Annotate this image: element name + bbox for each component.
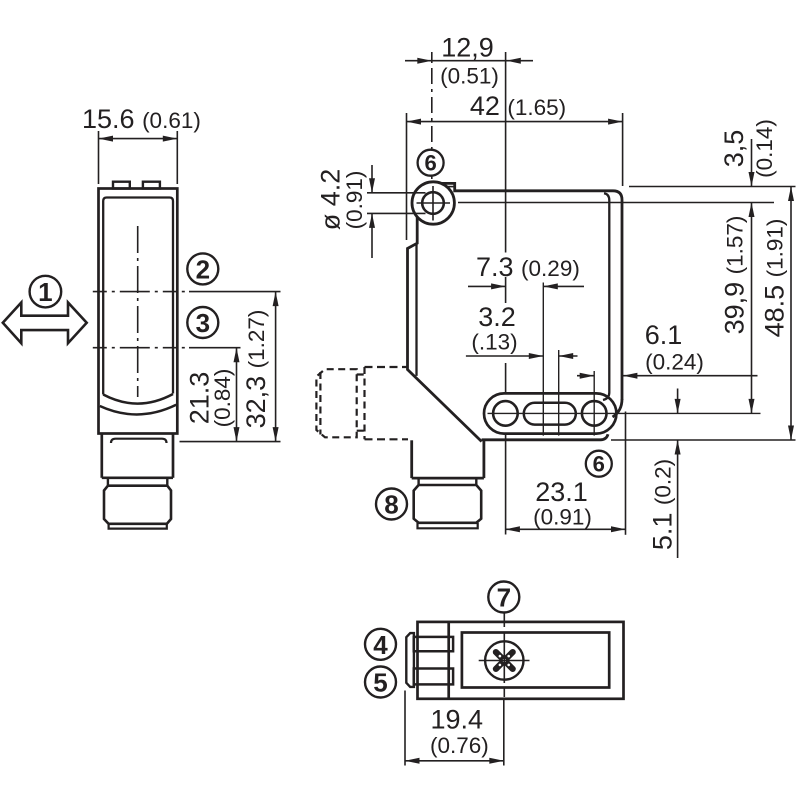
slot vertical line b [558, 350, 560, 436]
top tab 2 [143, 182, 160, 189]
dia 4.2 leader lines [367, 193, 426, 214]
dimension text 32,3 (1.27) rotated [241, 310, 271, 429]
arrowheads 23.1 [505, 526, 625, 532]
optical axis 2 (dash-dot through body) [93, 291, 189, 293]
dimension text dia 4.2 (0.91) rotated [316, 169, 368, 231]
lens window arc lower [100, 405, 176, 415]
svg-text:6: 6 [424, 151, 436, 176]
callout circle 1 [30, 276, 62, 308]
svg-text:(0.51): (0.51) [440, 64, 499, 89]
dimension 6.1 arrows [577, 375, 758, 377]
svg-text:(.13): (.13) [471, 330, 517, 355]
mounting hole boss [412, 182, 454, 224]
clamp tab 2 (top view) [414, 669, 453, 685]
svg-text:(0.91): (0.91) [342, 171, 367, 230]
dimension text 21.3 (0.84) rotated [185, 369, 236, 428]
svg-text:(0.76): (0.76) [430, 733, 489, 758]
boss seam line [444, 186, 455, 188]
top reference line [629, 186, 796, 188]
dimension 7.3 arrows [468, 285, 584, 287]
arrowheads 32,3 [273, 292, 279, 442]
dimension 3.2 arrows [466, 355, 578, 357]
front body inner left line [415, 244, 417, 376]
hidden side connector flange lines [365, 367, 409, 439]
svg-text:12,9: 12,9 [441, 33, 494, 63]
top view outer rectangle [418, 622, 624, 699]
bottom connector end cap (front view) [418, 523, 478, 529]
slot right circle [582, 401, 607, 426]
arrowheads 15.6 [99, 136, 178, 142]
top view separator line [447, 622, 450, 699]
dimension 48.5 line [790, 187, 792, 441]
svg-text:7.3 (0.29): 7.3 (0.29) [476, 252, 580, 282]
optical axis 3 (dash-dot through body) [93, 347, 189, 349]
dia 4.2 dimension vertical line [371, 165, 373, 258]
svg-text:3.2: 3.2 [478, 302, 516, 332]
slot centre oval [524, 403, 576, 425]
extension line hole centre (dash-dot) [431, 52, 433, 188]
arrowhead 3,5 [749, 172, 755, 187]
connector ring (left view) [108, 478, 167, 486]
dimension text 42 (1.65) [470, 91, 566, 121]
hidden side connector inner face line [319, 372, 321, 435]
bottom connector ring (front view) [419, 478, 477, 485]
dimension text 39,9 (1.57) rotated [720, 216, 750, 335]
callout circle 7 [488, 582, 519, 613]
arrowheads 42 [407, 119, 623, 125]
svg-text:48.5 (1.91): 48.5 (1.91) [760, 219, 790, 338]
arrowheads 5.1 [675, 399, 681, 455]
inner housing line [103, 198, 173, 395]
hidden side connector (dashed) nut [316, 369, 356, 437]
body right edge merge into foot [613, 399, 623, 417]
bottom reference line (front view) [611, 439, 796, 441]
dimension 5.1 lines [677, 389, 679, 559]
arrowheads 19.4 [405, 758, 504, 764]
top view inner rectangle [462, 633, 609, 688]
left view body outer rectangle [99, 189, 178, 434]
svg-text:2: 2 [196, 254, 210, 284]
dimension text 5.1 (0.2) rotated [648, 459, 678, 550]
connector end cap (left view) [109, 524, 167, 529]
connector nut (left view) [104, 486, 171, 524]
svg-text:5: 5 [373, 668, 387, 698]
lens window arc upper [103, 394, 173, 404]
screw circle [485, 641, 523, 679]
dimension text 7.3 (0.29) [476, 252, 580, 282]
mounting hole [422, 192, 444, 214]
top tab 1 [113, 182, 130, 189]
extension line optic axis long [505, 52, 507, 535]
dimension text 48.5 (1.91) rotated [760, 219, 790, 338]
svg-text:23.1: 23.1 [535, 477, 588, 507]
dimension 3,5 line [751, 139, 753, 187]
svg-text:8: 8 [384, 490, 398, 520]
dimension line 15.6 [99, 131, 178, 184]
dimension line 19.4 [405, 691, 504, 766]
dimension 21.3 vertical line [236, 348, 238, 442]
front body outline [442, 183, 623, 400]
arrowheads dia 4.2 [369, 178, 375, 228]
inner right line [604, 193, 609, 392]
callout circle 5 [365, 667, 396, 698]
clamp section below body [102, 434, 173, 478]
screw cross [496, 652, 513, 669]
slot left circle [493, 401, 518, 426]
clamp bracket (top view) [406, 633, 414, 687]
body bottom edge [482, 434, 608, 440]
bottom connector housing (front view) [412, 440, 484, 478]
screw centerline vertical (dash-dot) [503, 613, 505, 698]
svg-text:6.1: 6.1 [645, 320, 683, 350]
callout circle 2 [187, 253, 218, 284]
front body left edge [408, 217, 482, 442]
arrowheads 12,9 (outside) [417, 58, 521, 64]
dimension line 12,9 [405, 60, 533, 62]
callout circle 4 [365, 629, 396, 660]
dimension text 6.1 (0.24) [645, 320, 704, 375]
dimension 32,3 vertical line [275, 292, 277, 442]
optical axis 3 extension line [189, 347, 241, 349]
dimension text 3.2 (.13) [471, 302, 517, 355]
svg-text:6: 6 [593, 452, 605, 477]
optical axis 2 extension line [189, 291, 281, 293]
arrowheads 48.5 [788, 187, 794, 441]
vertical centerline [137, 226, 139, 397]
hole axis line vertical [432, 186, 434, 221]
svg-text:39,9 (1.57): 39,9 (1.57) [720, 216, 750, 335]
callout circle 6 bottom [586, 451, 612, 477]
slot axis horizontal [488, 412, 761, 414]
svg-text:(0.14): (0.14) [752, 119, 777, 178]
dimension text 3,5 (0.14) rotated [719, 119, 777, 178]
hidden side connector ring [357, 367, 365, 439]
inner right line hook [603, 393, 609, 401]
dimension text 19.4 (0.76) [430, 705, 489, 759]
double-headed arrow symbol (sense direction) [3, 303, 87, 344]
svg-text:32,3 (1.27): 32,3 (1.27) [241, 310, 271, 429]
hole axis line horizontal [417, 202, 775, 204]
arrowheads 21.3 [234, 348, 240, 442]
svg-text:19.4: 19.4 [431, 705, 484, 735]
callout circle 8 [376, 489, 407, 520]
svg-text:5.1 (0.2): 5.1 (0.2) [648, 459, 678, 550]
mounting slot foot (stadium) [484, 393, 616, 433]
svg-text:(0.84): (0.84) [210, 369, 235, 428]
clamp section inner step [111, 439, 167, 443]
hole crosshair [417, 186, 451, 221]
svg-text:ø 4.2: ø 4.2 [316, 169, 346, 231]
svg-text:42 (1.65): 42 (1.65) [470, 91, 566, 121]
svg-text:(0.91): (0.91) [533, 505, 592, 530]
dimension line 23.1 [505, 412, 625, 535]
dimension text 15.6 (0.61) [82, 104, 201, 134]
arrowheads 39,9 [749, 203, 755, 414]
dimension line 42 [407, 113, 623, 240]
clamp tab 1 (top view) [414, 637, 453, 651]
callout circle 3 [187, 307, 218, 338]
callout circle 6 top [418, 150, 444, 176]
dimension text 23.1 (0.91) [533, 477, 592, 530]
dimension text 12,9 (0.51) [440, 33, 499, 89]
svg-text:15.6 (0.61): 15.6 (0.61) [82, 104, 201, 134]
svg-text:(0.24): (0.24) [645, 350, 704, 375]
svg-text:3: 3 [196, 308, 210, 338]
svg-text:3,5: 3,5 [719, 130, 749, 168]
dimension 39,9 line [751, 203, 753, 414]
screw crosshair horizontal [479, 660, 530, 662]
slot right circle vertical line [593, 371, 595, 436]
svg-text:7: 7 [497, 583, 511, 613]
bottom reference line (left view) [180, 441, 281, 443]
svg-text:4: 4 [373, 630, 388, 660]
svg-text:1: 1 [38, 277, 52, 307]
bottom connector nut (front view) [414, 485, 482, 523]
slot vertical line a [542, 283, 544, 436]
